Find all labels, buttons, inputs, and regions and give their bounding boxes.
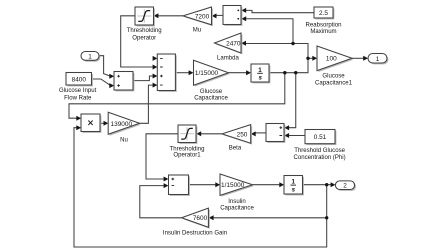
svg-text:Capacitance1: Capacitance1 — [315, 81, 353, 87]
svg-text:2470: 2470 — [226, 41, 241, 48]
svg-text:Glucose: Glucose — [200, 89, 223, 95]
svg-text:Capacitance: Capacitance — [194, 96, 228, 102]
svg-text:Flow Rate: Flow Rate — [64, 96, 92, 102]
svg-text:Insulin: Insulin — [228, 199, 245, 205]
svg-text:1/15000: 1/15000 — [195, 70, 219, 77]
svg-text:2: 2 — [343, 183, 347, 190]
svg-text:Beta: Beta — [229, 146, 242, 152]
svg-text:8400: 8400 — [72, 76, 87, 83]
svg-text:Glucose Input: Glucose Input — [59, 88, 97, 94]
svg-text:Mu: Mu — [193, 27, 201, 33]
svg-text:7600: 7600 — [193, 215, 208, 222]
svg-text:Reabsorption: Reabsorption — [306, 22, 342, 28]
svg-text:139000: 139000 — [111, 121, 133, 128]
svg-text:Concentration (Phi): Concentration (Phi) — [294, 155, 346, 161]
svg-text:Nu: Nu — [120, 138, 128, 144]
svg-text:Threshold Glucose: Threshold Glucose — [294, 148, 345, 154]
svg-text:1: 1 — [258, 67, 262, 74]
svg-text:Operator1: Operator1 — [173, 153, 201, 159]
svg-text:Maximum: Maximum — [310, 29, 336, 35]
svg-text:Insulin Destruction Gain: Insulin Destruction Gain — [163, 230, 227, 236]
svg-text:Glucose: Glucose — [322, 74, 345, 80]
svg-text:100: 100 — [326, 56, 337, 63]
svg-text:1: 1 — [291, 179, 295, 186]
svg-text:0.51: 0.51 — [314, 134, 327, 141]
svg-text:s: s — [292, 186, 296, 193]
svg-text:250: 250 — [237, 131, 248, 138]
svg-text:1/15000: 1/15000 — [221, 182, 245, 189]
svg-text:s: s — [258, 75, 262, 82]
svg-text:7200: 7200 — [195, 13, 210, 20]
svg-text:1: 1 — [88, 54, 92, 61]
svg-text:Lambda: Lambda — [217, 56, 239, 62]
svg-text:Operator: Operator — [132, 35, 156, 41]
svg-text:Thresholding: Thresholding — [170, 146, 205, 152]
svg-text:1: 1 — [376, 56, 380, 63]
svg-text:Thresholding: Thresholding — [127, 28, 162, 34]
svg-text:Capacitance: Capacitance — [220, 206, 254, 212]
svg-text:2.5: 2.5 — [319, 10, 328, 17]
